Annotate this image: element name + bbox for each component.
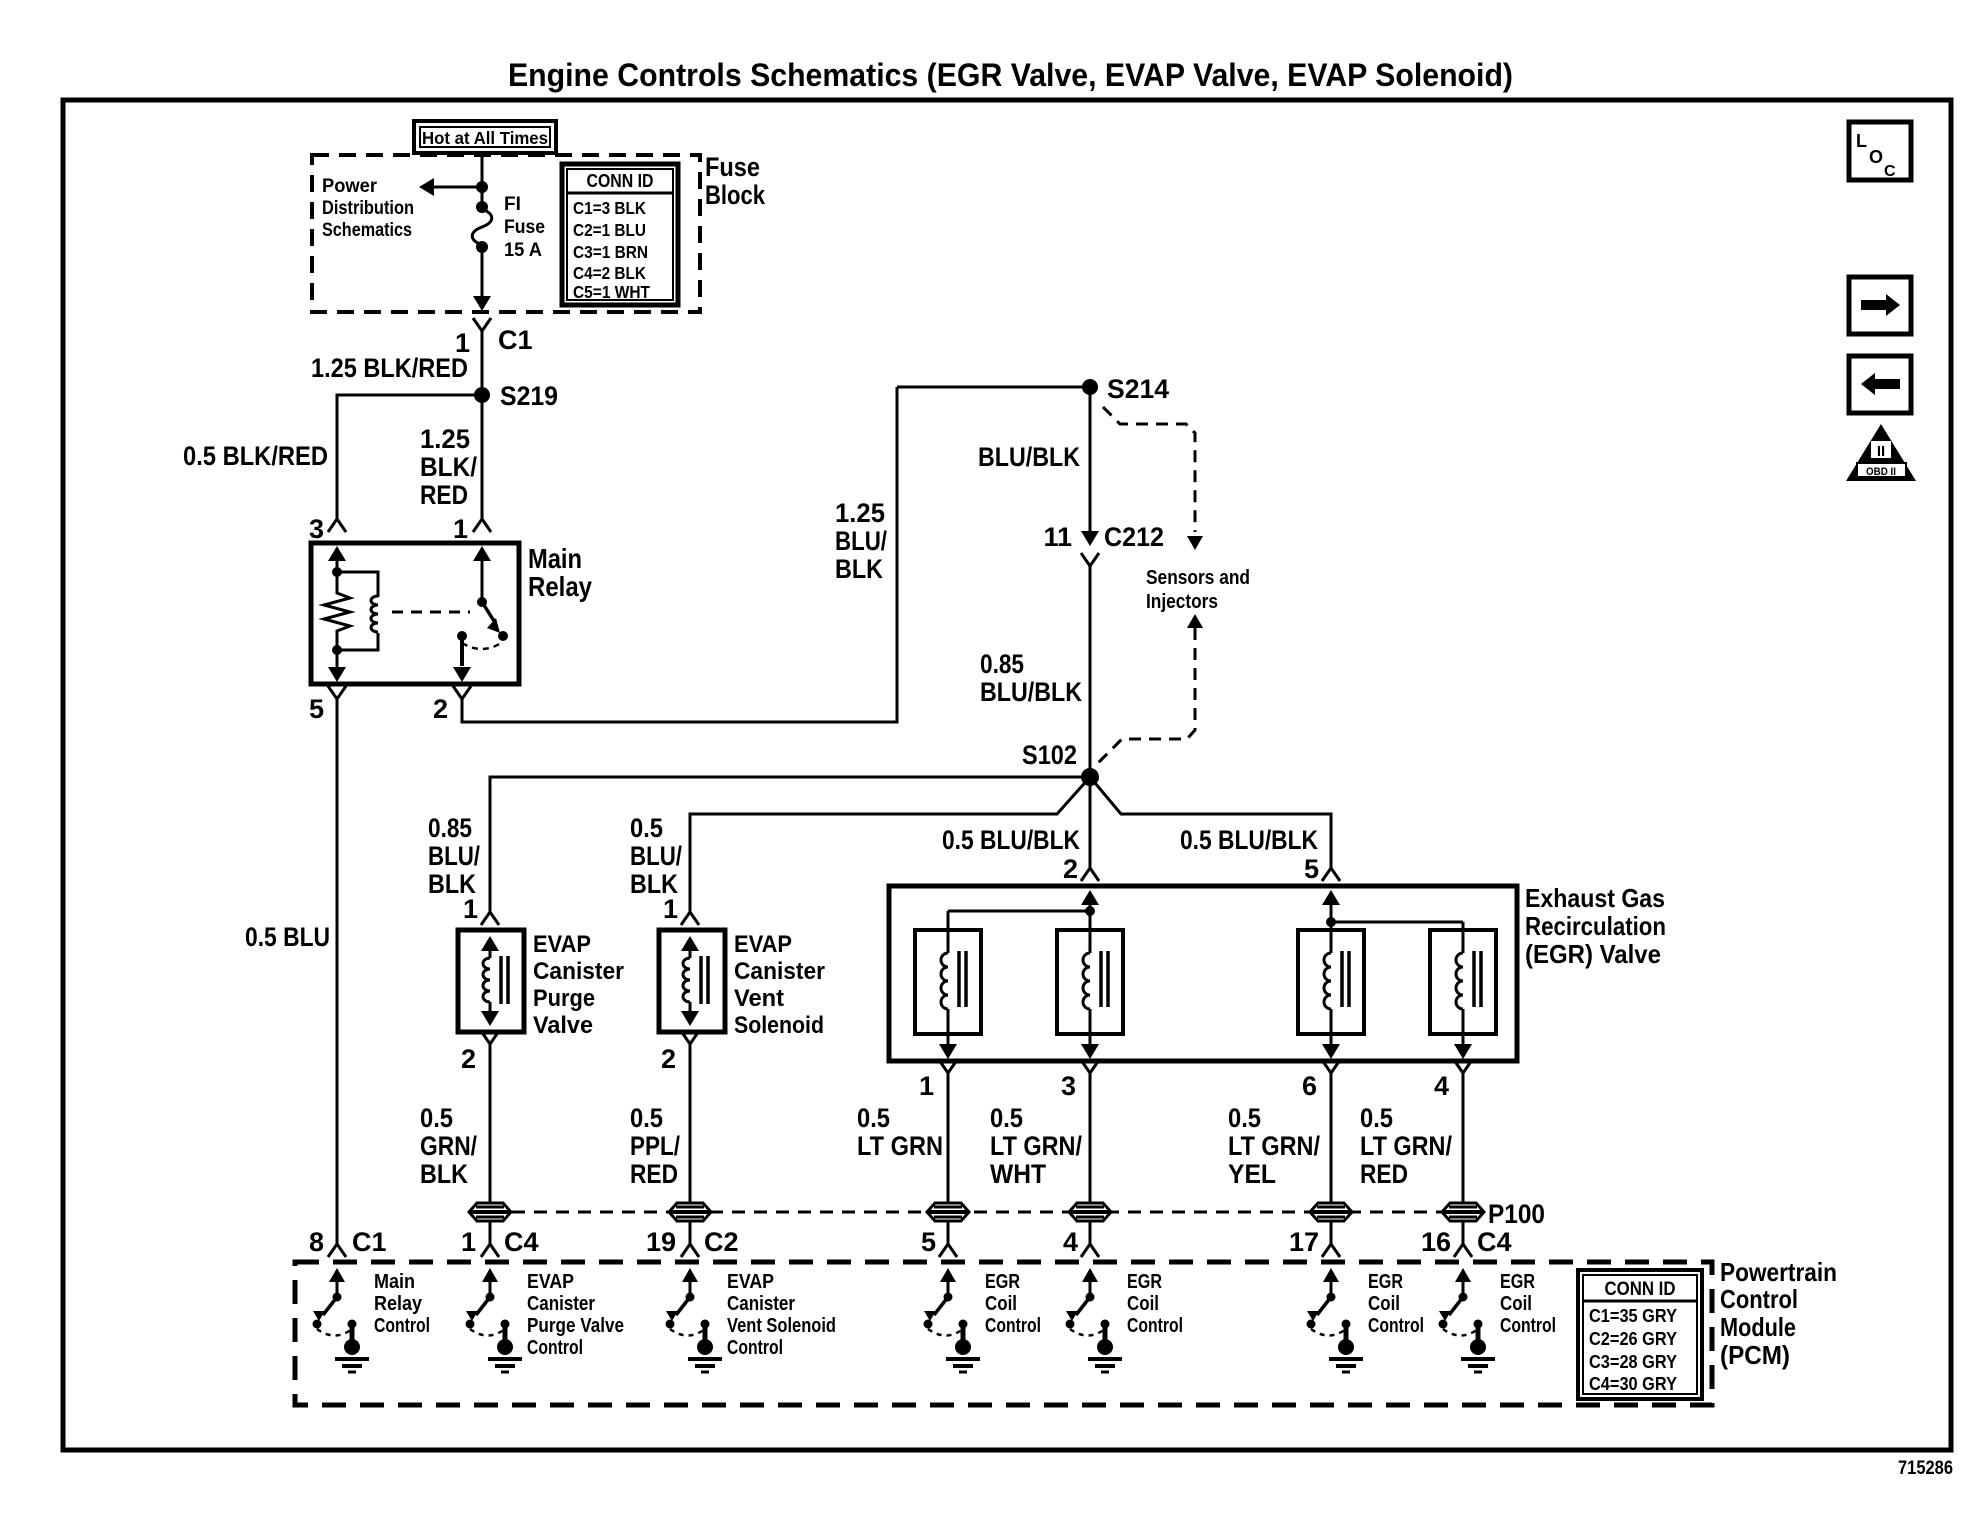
svg-text:Solenoid: Solenoid	[734, 1012, 824, 1039]
label: 1.25 BLU/BLK (riser)	[835, 498, 887, 584]
EVAP vent solenoid control driver label	[727, 1271, 836, 1359]
relay coil branch entering pin 3	[328, 546, 346, 577]
svg-text:C4: C4	[504, 1227, 539, 1257]
svg-text:Powertrain: Powertrain	[1720, 1257, 1837, 1287]
svg-text:Coil: Coil	[1500, 1293, 1532, 1315]
relay pin 2 connector	[433, 686, 471, 724]
EGR coil 3 control driver label	[1368, 1271, 1424, 1337]
label: 0.85 BLU/BLK (purge feed)	[428, 813, 480, 899]
label: 1.25 BLK/RED (vertical run)	[420, 424, 477, 510]
wire: main relay circuit into PCM	[328, 1203, 346, 1257]
svg-text:BLU/: BLU/	[835, 526, 887, 556]
label: 0.5 GRN/BLK	[420, 1103, 477, 1189]
svg-text:Canister: Canister	[727, 1293, 795, 1315]
P100 pass-through at EGR pin3 wire	[1069, 1203, 1111, 1221]
PCM pin 16 C4 labels	[1421, 1227, 1512, 1257]
EVAP vent solenoid pin 2 connector	[661, 1031, 699, 1074]
svg-text:BLK: BLK	[835, 554, 883, 584]
EGR coil 2 control driver switch	[1066, 1268, 1110, 1340]
svg-text:C3=28 GRY: C3=28 GRY	[1589, 1351, 1678, 1372]
relay resistor element	[324, 572, 350, 650]
svg-text:LT GRN/: LT GRN/	[1228, 1131, 1320, 1161]
wire: EGR pin 3 down to P100	[1089, 1073, 1092, 1203]
svg-text:II: II	[1877, 443, 1885, 460]
splice S214	[1082, 374, 1169, 404]
EGR internal feed from pin 5	[1322, 890, 1463, 930]
main relay K1 box	[311, 543, 519, 684]
wire: purge circuit into PCM	[481, 1221, 499, 1257]
PCM pin 4 label	[1063, 1227, 1078, 1257]
svg-text:Main: Main	[374, 1271, 415, 1293]
svg-text:C1: C1	[352, 1227, 387, 1257]
svg-text:0.5 BLU: 0.5 BLU	[245, 922, 330, 952]
svg-text:Block: Block	[705, 180, 766, 210]
wire: S102 to EVAP purge valve pin 1	[490, 777, 1090, 912]
relay switch pole from pin 1	[473, 546, 491, 607]
svg-text:Canister: Canister	[527, 1293, 595, 1315]
wire: fuse to connector C1	[473, 247, 491, 311]
svg-text:0.5: 0.5	[630, 1103, 663, 1133]
Hot at All Times banner	[414, 121, 556, 153]
svg-text:C5=1 WHT: C5=1 WHT	[573, 282, 650, 302]
svg-text:Power: Power	[322, 176, 378, 197]
forward arrow icon	[1849, 277, 1911, 334]
LOC navigation icon	[1849, 122, 1911, 180]
svg-text:EVAP: EVAP	[727, 1271, 774, 1293]
svg-text:EVAP: EVAP	[527, 1271, 574, 1293]
svg-text:0.5 BLU/BLK: 0.5 BLU/BLK	[942, 825, 1080, 855]
EGR coil 4 control driver ground	[1461, 1339, 1495, 1372]
wire: EGR pin 6 down to P100	[1330, 1073, 1333, 1203]
svg-text:19: 19	[646, 1227, 676, 1257]
EVAP vent solenoid control driver ground	[688, 1339, 722, 1372]
document number 715286	[1898, 1458, 1953, 1479]
svg-text:EGR: EGR	[985, 1271, 1020, 1293]
svg-text:Main: Main	[528, 543, 582, 574]
P100 pass-through at EGR pin1 wire	[927, 1203, 969, 1221]
label: 0.5 BLU/BLK (EGR pin 5 feed)	[1180, 825, 1318, 855]
svg-text:EGR: EGR	[1127, 1271, 1162, 1293]
svg-text:WHT: WHT	[990, 1159, 1046, 1189]
label: BLU/BLK	[978, 442, 1080, 472]
svg-text:S102: S102	[1022, 740, 1077, 770]
label: 0.85 BLU/BLK (spine)	[980, 649, 1082, 707]
EGR internal feed from pin 2	[948, 890, 1099, 930]
EVAP canister vent solenoid box	[659, 930, 725, 1032]
relay switch lower contact to pin 2	[453, 631, 471, 682]
svg-text:(EGR) Valve: (EGR) Valve	[1525, 939, 1661, 969]
P100 pass-through at EGR pin4 wire	[1442, 1199, 1545, 1229]
svg-text:2: 2	[461, 1044, 476, 1074]
svg-text:Control: Control	[1368, 1315, 1424, 1337]
label: Exhaust Gas Recirculation (EGR) Valve	[1525, 883, 1666, 969]
svg-text:GRN/: GRN/	[420, 1131, 477, 1161]
svg-text:Control: Control	[374, 1315, 430, 1337]
EGR coil 1 control driver switch	[924, 1268, 968, 1340]
wire: riser to splice S214	[897, 386, 1090, 389]
EVAP canister purge valve box	[458, 930, 524, 1032]
EGR coil C exit to pin 6	[1322, 1034, 1340, 1059]
svg-text:17: 17	[1289, 1227, 1319, 1257]
svg-text:CONN ID: CONN ID	[1605, 1279, 1676, 1300]
svg-text:1.25 BLK/RED: 1.25 BLK/RED	[311, 353, 468, 383]
svg-text:CONN ID: CONN ID	[587, 171, 654, 191]
svg-text:Canister: Canister	[734, 958, 825, 985]
EGR coil B winding	[1083, 930, 1108, 1034]
svg-text:0.5: 0.5	[630, 813, 663, 843]
svg-text:0.5: 0.5	[420, 1103, 453, 1133]
svg-text:C4: C4	[1477, 1227, 1512, 1257]
P100 pass-through at purge wire	[469, 1203, 511, 1221]
EGR coil 4 control driver label	[1500, 1271, 1556, 1337]
svg-text:C212: C212	[1104, 522, 1164, 552]
svg-text:Coil: Coil	[1127, 1293, 1159, 1315]
EGR coil 1 control driver label	[985, 1271, 1041, 1337]
svg-text:YEL: YEL	[1228, 1159, 1276, 1189]
svg-text:RED: RED	[1360, 1159, 1408, 1189]
CONN ID table (fuse block)	[562, 164, 678, 305]
svg-text:C2=26 GRY: C2=26 GRY	[1589, 1328, 1678, 1349]
svg-text:C1=35 GRY: C1=35 GRY	[1589, 1305, 1678, 1326]
EGR coil B box	[1057, 930, 1123, 1034]
svg-text:RED: RED	[420, 480, 468, 510]
label: Fuse Block	[705, 152, 766, 210]
svg-text:L: L	[1856, 131, 1867, 151]
relay armature dashed link	[392, 611, 470, 614]
label: 0.5 BLU	[245, 922, 330, 952]
EGR valve pin 1 connector	[919, 1060, 957, 1101]
EVAP vent solenoid control driver switch	[666, 1268, 710, 1340]
svg-text:1: 1	[663, 894, 678, 924]
svg-text:0.5: 0.5	[990, 1103, 1023, 1133]
svg-text:(PCM): (PCM)	[1720, 1340, 1790, 1370]
wire: S219 down to relay pin 1	[481, 395, 484, 519]
svg-text:Relay: Relay	[528, 571, 592, 602]
svg-text:0.5 BLK/RED: 0.5 BLK/RED	[183, 441, 328, 471]
svg-text:1: 1	[453, 514, 468, 544]
svg-text:C4=30 GRY: C4=30 GRY	[1589, 1373, 1678, 1394]
label: Powertrain Control Module (PCM)	[1720, 1257, 1837, 1370]
svg-text:715286: 715286	[1898, 1458, 1953, 1479]
svg-text:Module: Module	[1720, 1312, 1796, 1342]
P100 pass-through at EGR pin6 wire	[1310, 1203, 1352, 1221]
back arrow icon	[1849, 356, 1911, 413]
svg-text:S219: S219	[500, 381, 558, 411]
wire: C212 down to splice S102	[1089, 566, 1092, 777]
P100 dashed connector plane	[490, 1211, 1463, 1214]
EGR coil 2 control driver ground	[1088, 1339, 1122, 1372]
wire: C1 to splice S219	[481, 344, 484, 395]
svg-text:11: 11	[1043, 522, 1072, 552]
EGR coil D box	[1430, 930, 1496, 1034]
relay pin 1 connector	[453, 514, 491, 544]
fuse F1 15A symbol	[472, 201, 492, 253]
wire: EGR4 circuit into PCM	[1454, 1221, 1472, 1257]
svg-text:2: 2	[433, 694, 448, 724]
label: Main Relay	[528, 543, 592, 602]
EGR coil 1 control driver ground	[946, 1339, 980, 1372]
EGR valve pin 3 connector	[1061, 1060, 1099, 1101]
splice S102	[1022, 740, 1099, 786]
svg-text:LT GRN/: LT GRN/	[990, 1131, 1082, 1161]
svg-text:6: 6	[1302, 1071, 1317, 1101]
wire: S102 to EVAP vent solenoid pin 1	[690, 777, 1090, 912]
wire: S214 down to connector C212	[1089, 387, 1092, 532]
EGR coil C winding	[1324, 930, 1349, 1034]
svg-text:PPL/: PPL/	[630, 1131, 680, 1161]
svg-text:BLU/: BLU/	[630, 841, 682, 871]
svg-text:BLU/BLK: BLU/BLK	[978, 442, 1080, 472]
svg-text:S214: S214	[1107, 374, 1169, 404]
P100 pass-through at vent wire	[669, 1203, 711, 1221]
relay coil element	[332, 572, 378, 655]
svg-text:0.5: 0.5	[857, 1103, 890, 1133]
svg-text:3: 3	[309, 514, 324, 544]
EVAP purge valve control driver label	[527, 1271, 624, 1359]
EGR valve pin 4 connector	[1434, 1060, 1472, 1101]
svg-text:1.25: 1.25	[420, 424, 470, 454]
wire: purge valve pin 2 down to P100	[489, 1044, 492, 1203]
EGR coil A exit to pin 1	[939, 1034, 957, 1059]
EVAP vent solenoid coil	[681, 936, 708, 1026]
wire: S102 to EGR valve pin 5	[1090, 777, 1331, 868]
svg-text:Control: Control	[727, 1337, 783, 1359]
PCM pin 8 C1 labels	[309, 1227, 387, 1257]
svg-text:C2: C2	[704, 1227, 739, 1257]
svg-text:BLU/: BLU/	[428, 841, 480, 871]
EVAP purge valve control driver switch	[466, 1268, 510, 1340]
label: 0.5 BLU/BLK (EGR pin 2 feed)	[942, 825, 1080, 855]
svg-text:RED: RED	[630, 1159, 678, 1189]
relay pin 3 connector	[309, 514, 346, 544]
svg-text:P100: P100	[1488, 1199, 1545, 1229]
EGR coil 3 control driver ground	[1329, 1339, 1363, 1372]
wire: EGR2 circuit into PCM	[1081, 1221, 1099, 1257]
main relay control driver ground	[335, 1339, 369, 1372]
svg-text:C3=1 BRN: C3=1 BRN	[573, 242, 648, 262]
svg-text:BLK: BLK	[420, 1159, 468, 1189]
svg-text:O: O	[1869, 147, 1883, 167]
dashed reference: S102 to sensors and injectors	[1098, 614, 1203, 763]
svg-text:0.5: 0.5	[1360, 1103, 1393, 1133]
svg-text:1.25: 1.25	[835, 498, 885, 528]
svg-text:OBD II: OBD II	[1866, 466, 1896, 478]
PCM pin 19 C2 labels	[646, 1227, 739, 1257]
wire: EGR pin 4 down to P100	[1462, 1073, 1465, 1203]
svg-text:EVAP: EVAP	[734, 931, 792, 958]
svg-text:Vent Solenoid: Vent Solenoid	[727, 1315, 836, 1337]
relay switch throw arm	[482, 602, 508, 641]
svg-text:Canister: Canister	[533, 958, 624, 985]
svg-text:EVAP: EVAP	[533, 931, 591, 958]
wire: vent solenoid pin 2 down to P100	[689, 1044, 692, 1203]
EGR valve pin 6 connector	[1302, 1060, 1340, 1101]
EVAP purge valve pin 2 connector	[461, 1031, 499, 1074]
svg-text:Control: Control	[985, 1315, 1041, 1337]
svg-text:4: 4	[1434, 1071, 1449, 1101]
svg-text:5: 5	[1304, 854, 1319, 884]
EGR coil D winding	[1456, 930, 1481, 1034]
wire: S102 down to EGR valve pin 2	[1089, 777, 1092, 868]
label: 0.5 BLU/BLK (vent feed)	[630, 813, 682, 899]
EGR coil D exit to pin 4	[1454, 1034, 1472, 1059]
svg-text:C4=2 BLK: C4=2 BLK	[573, 263, 646, 283]
svg-text:Purge Valve: Purge Valve	[527, 1315, 624, 1337]
svg-text:C1: C1	[498, 325, 533, 355]
label: Sensors and Injectors	[1146, 567, 1250, 613]
wire: relay pin 5 down to PCM pin 8	[336, 699, 339, 1240]
EVAP purge valve coil	[481, 936, 508, 1026]
label: FI Fuse 15 A	[504, 194, 545, 261]
PCM pin 17 label	[1289, 1227, 1319, 1257]
label: 0.5 LT GRN/WHT	[990, 1103, 1082, 1189]
svg-text:Purge: Purge	[533, 985, 595, 1012]
PCM pin 5 label	[921, 1227, 936, 1257]
svg-text:3: 3	[1061, 1071, 1076, 1101]
svg-text:BLK/: BLK/	[420, 452, 477, 482]
svg-text:Coil: Coil	[985, 1293, 1017, 1315]
label: 0.5 LT GRN/RED	[1360, 1103, 1452, 1189]
wire: hot feed into fuse block	[481, 155, 484, 206]
label: EVAP Canister Purge Valve	[533, 931, 624, 1039]
main relay control driver label	[374, 1271, 430, 1337]
wire: vent circuit into PCM	[681, 1221, 699, 1257]
svg-text:0.5 BLU/BLK: 0.5 BLU/BLK	[1180, 825, 1318, 855]
wire: EGR pin 1 down to P100	[947, 1073, 950, 1203]
connector C1 pin 1	[455, 318, 533, 358]
svg-text:Control: Control	[1720, 1284, 1798, 1314]
svg-text:Hot at All Times: Hot at All Times	[422, 128, 548, 148]
svg-text:1: 1	[461, 1227, 476, 1257]
svg-text:1: 1	[919, 1071, 934, 1101]
EVAP purge valve control driver ground	[488, 1339, 522, 1372]
svg-text:FI: FI	[504, 194, 521, 215]
label: 0.5 BLK/RED	[183, 441, 328, 471]
relay switch dashed travel arc	[462, 643, 501, 649]
EGR coil C box	[1298, 930, 1364, 1034]
svg-text:Distribution: Distribution	[322, 198, 414, 219]
wire: EGR1 circuit into PCM	[939, 1221, 957, 1257]
main relay control driver switch	[313, 1268, 357, 1340]
label: 0.5 LT GRN/YEL	[1228, 1103, 1320, 1189]
EGR valve pin 5 connector	[1304, 854, 1340, 884]
junction to power distribution with left arrow	[419, 178, 488, 196]
svg-text:Schematics: Schematics	[322, 220, 412, 241]
relay coil exit to pin 5	[328, 650, 346, 682]
connector C212 pin 11	[1043, 522, 1164, 566]
svg-text:EGR: EGR	[1368, 1271, 1403, 1293]
svg-text:8: 8	[309, 1227, 324, 1257]
EGR coil 2 control driver label	[1127, 1271, 1183, 1337]
svg-text:Control: Control	[527, 1337, 583, 1359]
svg-text:Sensors and: Sensors and	[1146, 567, 1250, 589]
powertrain control module dashed box	[295, 1262, 1712, 1405]
svg-text:5: 5	[921, 1227, 936, 1257]
EGR valve pin 2 connector	[1063, 854, 1099, 884]
svg-text:4: 4	[1063, 1227, 1078, 1257]
svg-text:C: C	[1884, 163, 1896, 180]
EGR coil 4 control driver switch	[1439, 1268, 1483, 1340]
svg-text:0.5: 0.5	[1228, 1103, 1261, 1133]
svg-text:LT GRN/: LT GRN/	[1360, 1131, 1452, 1161]
relay pin 5 connector	[309, 686, 346, 724]
svg-text:Fuse: Fuse	[705, 152, 760, 182]
svg-text:EGR: EGR	[1500, 1271, 1535, 1293]
title: Engine Controls Schematics (EGR Valve, EVAP Valve, EVAP Solenoid)	[508, 57, 1513, 93]
svg-text:5: 5	[309, 694, 324, 724]
OBD II warning triangle icon	[1846, 424, 1916, 481]
dashed reference: S214 to sensors and injectors	[1103, 407, 1203, 550]
svg-text:15 A: 15 A	[504, 240, 542, 261]
label: 0.5 LT GRN	[857, 1103, 943, 1161]
EVAP purge valve pin 1 connector	[463, 894, 499, 925]
svg-text:Engine Controls Schematics (EG: Engine Controls Schematics (EGR Valve, E…	[508, 57, 1513, 93]
svg-text:LT GRN: LT GRN	[857, 1131, 943, 1161]
svg-text:2: 2	[661, 1044, 676, 1074]
svg-text:C1=3 BLK: C1=3 BLK	[573, 198, 646, 218]
svg-text:Control: Control	[1500, 1315, 1556, 1337]
EVAP vent solenoid pin 1 connector	[663, 894, 699, 925]
svg-text:Vent: Vent	[734, 985, 784, 1012]
svg-text:BLU/BLK: BLU/BLK	[980, 677, 1082, 707]
EGR valve outer box	[889, 886, 1517, 1061]
splice S219	[474, 381, 558, 411]
fuse block dashed enclosure	[312, 155, 700, 312]
svg-text:C2=1 BLU: C2=1 BLU	[573, 220, 646, 240]
svg-text:0.85: 0.85	[428, 813, 472, 843]
EGR coil 3 control driver switch	[1307, 1268, 1351, 1340]
svg-text:Exhaust Gas: Exhaust Gas	[1525, 883, 1665, 913]
svg-text:Injectors: Injectors	[1146, 591, 1218, 613]
svg-text:Valve: Valve	[533, 1012, 593, 1039]
svg-text:16: 16	[1421, 1227, 1451, 1257]
label: 1.25 BLK/RED	[311, 353, 468, 383]
EGR coil A winding	[941, 930, 966, 1034]
label: Power Distribution Schematics	[322, 176, 414, 241]
label: 0.5 PPL/RED	[630, 1103, 680, 1189]
wire: relay pin 2 across and up to S214	[462, 387, 897, 722]
CONN ID table (PCM)	[1578, 1270, 1702, 1399]
PCM pin 1 C4 labels	[461, 1227, 539, 1257]
wire: S219 branch left to relay pin 3	[337, 395, 482, 519]
svg-text:Fuse: Fuse	[504, 217, 545, 238]
EGR coil B exit to pin 3	[1081, 1034, 1099, 1059]
wire: EGR3 circuit into PCM	[1322, 1221, 1340, 1257]
svg-text:2: 2	[1063, 854, 1078, 884]
svg-text:Relay: Relay	[374, 1293, 423, 1315]
svg-text:Recirculation: Recirculation	[1525, 911, 1666, 941]
svg-text:Coil: Coil	[1368, 1293, 1400, 1315]
svg-text:Control: Control	[1127, 1315, 1183, 1337]
svg-text:0.85: 0.85	[980, 649, 1024, 679]
svg-text:1: 1	[463, 894, 478, 924]
EGR coil A box	[915, 930, 981, 1034]
label: EVAP Canister Vent Solenoid	[734, 931, 825, 1039]
